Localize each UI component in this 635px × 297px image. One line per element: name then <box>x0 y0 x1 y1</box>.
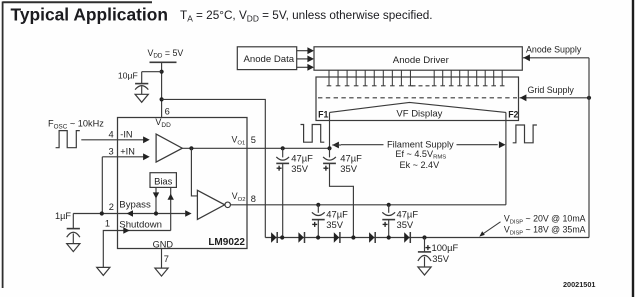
label Ek <box>400 160 441 170</box>
wire op-amp output to pin 5 and caps <box>182 147 329 149</box>
arrow to F2 wire <box>499 141 506 148</box>
junction VDD/10uF <box>160 70 164 74</box>
svg-text:Anode Driver: Anode Driver <box>393 55 450 66</box>
block Bias box <box>150 173 176 188</box>
junction VO1/F1/C4 <box>327 146 331 150</box>
svg-text:F1: F1 <box>318 109 328 119</box>
label LM9022 <box>208 237 245 248</box>
label Filament Supply <box>387 139 454 149</box>
wire anode supply <box>523 57 589 59</box>
svg-text:TA = 25°C, VDD = 5V, unless ot: TA = 25°C, VDD = 5V, unless otherwise sp… <box>180 9 433 23</box>
block VF Display box <box>316 77 519 121</box>
diode D4 <box>369 232 375 243</box>
junction grid supply on bus <box>587 96 591 100</box>
bus arrow 1 anode data <box>297 47 314 54</box>
wire +IN to bypass node <box>101 157 103 214</box>
label VO1 <box>232 135 246 147</box>
pin 1 label <box>105 218 110 228</box>
junction pump node 3 <box>351 235 355 239</box>
label FOSC ~ 10kHz <box>48 118 104 130</box>
wire charge pump rail <box>265 237 589 239</box>
arrow into -IN <box>143 136 150 143</box>
arrow on bypass line toward pin 2 <box>127 210 133 217</box>
IC U1 LM9022 outline <box>118 118 248 249</box>
wire shutdown internal <box>118 230 171 232</box>
wire inverter output VO2 line <box>231 204 506 206</box>
svg-text:47µF: 47µF <box>397 208 419 219</box>
svg-text:7: 7 <box>164 254 169 264</box>
label Anode Driver <box>393 55 450 66</box>
svg-text:35V: 35V <box>291 163 308 174</box>
junction VO2/C6 <box>387 203 391 207</box>
label Anode Supply <box>526 44 582 54</box>
svg-text:10µF: 10µF <box>118 71 138 81</box>
svg-text:47µF: 47µF <box>326 208 348 219</box>
label F1 <box>318 109 328 119</box>
leader arrow to output line <box>479 222 500 237</box>
wire bypass line <box>73 213 185 215</box>
arrow on shutdown line <box>123 227 129 234</box>
svg-text:8: 8 <box>251 194 256 204</box>
op-amp A1 <box>156 134 182 162</box>
arrow into +IN <box>143 153 150 160</box>
arrow into anode driver <box>523 54 530 61</box>
svg-text:2: 2 <box>109 202 114 212</box>
label Grid Supply <box>528 85 575 95</box>
label VF Display <box>396 109 442 120</box>
svg-text:1: 1 <box>105 218 110 228</box>
svg-text:F2: F2 <box>508 109 518 119</box>
label -IN <box>120 130 132 140</box>
svg-text:47µF: 47µF <box>340 152 362 163</box>
svg-text:47µF: 47µF <box>291 152 313 163</box>
svg-text:+IN: +IN <box>120 146 135 156</box>
subtitle: conditions <box>180 9 433 23</box>
label F2 <box>508 109 518 119</box>
svg-text:VF Display: VF Display <box>396 109 442 120</box>
leader line left of filament supply text <box>341 144 384 146</box>
junction pump node 2 <box>316 235 320 239</box>
inverter A2 <box>197 190 230 219</box>
wire shutdown external to ground <box>103 231 117 268</box>
label VDISP 20V <box>504 214 586 226</box>
junction bypass/+IN/1uF <box>100 211 104 215</box>
border frame <box>3 1 152 3</box>
capacitor C4 47uF <box>323 148 353 237</box>
pin 7 label <box>164 254 169 264</box>
diode D1 <box>271 232 277 243</box>
label GND pin name <box>153 240 174 250</box>
svg-text:Anode Data: Anode Data <box>243 54 294 65</box>
wire Bias to bypass node with down arrow <box>153 187 159 213</box>
wire 10uF branch <box>142 71 162 73</box>
svg-text:Anode Supply: Anode Supply <box>526 44 582 54</box>
label VO2 <box>232 191 246 203</box>
svg-text:Bias: Bias <box>154 175 173 186</box>
junction bypass/bias <box>154 211 158 215</box>
wire supply bus vertical <box>588 58 590 238</box>
wire grid supply <box>520 97 590 99</box>
bus arrow 2 anode data <box>297 56 314 63</box>
capacitor C2 1uF <box>67 214 80 244</box>
pin 5 label <box>251 135 256 145</box>
capacitor C3 47uF <box>276 146 289 237</box>
svg-text:Ek ~ 2.4V: Ek ~ 2.4V <box>400 160 441 170</box>
grid dashed line <box>318 97 517 99</box>
capacitor C6 47uF <box>382 205 395 238</box>
capacitor C5 47uF <box>312 205 325 238</box>
pin 6 label <box>165 106 170 116</box>
ground for shutdown <box>97 267 110 275</box>
arrow into grid <box>520 94 527 101</box>
value label C3 <box>291 152 313 174</box>
label Bypass <box>119 200 151 211</box>
label Shutdown <box>119 220 162 231</box>
svg-text:3: 3 <box>109 146 114 156</box>
svg-text:LM9022: LM9022 <box>208 237 245 248</box>
value label 10uF <box>118 71 138 81</box>
ellipsis dashes between fingers <box>412 85 434 87</box>
capacitor C1 10uF <box>135 72 148 95</box>
wire shutdown to Bias with up arrow <box>168 187 174 230</box>
pin 2 label <box>109 202 114 212</box>
value label C5 <box>326 208 348 230</box>
junction pump node 1 <box>280 235 284 239</box>
wire F2 to VO2 line <box>505 112 507 204</box>
wire VDD to diode chain <box>162 99 266 237</box>
block Anode Driver box <box>314 47 522 70</box>
svg-text:35V: 35V <box>432 253 449 264</box>
label Ef <box>395 149 446 161</box>
value label C6 <box>397 208 419 230</box>
svg-text:Typical Application: Typical Application <box>11 5 169 25</box>
node VDD = 5V label <box>148 48 184 60</box>
ground for pin 7 <box>155 268 168 276</box>
anode driver output fingers <box>327 70 505 86</box>
label VDD pin name <box>155 117 171 129</box>
arrow to F1 node <box>332 142 341 149</box>
label Anode Data <box>243 54 294 65</box>
arrow on bypass line into inverter <box>185 210 191 217</box>
pin 3 label <box>109 146 114 156</box>
svg-text:Grid Supply: Grid Supply <box>528 85 575 95</box>
wire feedback VO1 to inverter <box>191 148 197 196</box>
ground for 1uF <box>67 244 80 252</box>
VDD supply rail bar <box>150 61 177 63</box>
bus arrow 3 anode data <box>297 64 314 71</box>
junction VO2/C5 <box>316 203 320 207</box>
svg-text:5: 5 <box>251 135 256 145</box>
diode D5 <box>404 232 410 243</box>
svg-text:Bypass: Bypass <box>119 200 151 211</box>
label VDISP 18V <box>504 225 586 237</box>
value label 1uF <box>55 211 71 221</box>
value label 100uF <box>432 242 459 264</box>
document number 20021501 <box>563 280 595 289</box>
ground for 100uF <box>418 267 431 275</box>
svg-text:4: 4 <box>109 130 114 140</box>
svg-text:35V: 35V <box>340 163 357 174</box>
wire -IN input <box>81 139 143 141</box>
pin 4 label <box>109 130 114 140</box>
leader line right of filament supply text <box>457 144 498 146</box>
block Anode Data box <box>237 47 296 70</box>
svg-text:GND: GND <box>153 240 174 250</box>
wire GND pin 7 <box>161 249 163 269</box>
svg-text:35V: 35V <box>397 219 414 230</box>
filament wire tent <box>330 102 506 112</box>
capacitor C7 100uF <box>418 238 431 268</box>
title: Typical Application <box>11 5 169 25</box>
svg-text:1µF: 1µF <box>55 211 71 221</box>
diode D3 <box>334 232 340 243</box>
ground for 10uF <box>135 94 148 102</box>
svg-text:20021501: 20021501 <box>563 280 595 289</box>
waveform square wave at FOSC input <box>56 131 80 148</box>
wire F1 to VO1 node <box>329 112 331 148</box>
svg-text:6: 6 <box>165 106 170 116</box>
waveform square wave at F1 <box>301 125 325 143</box>
pin 8 label <box>251 194 256 204</box>
svg-text:35V: 35V <box>326 219 343 230</box>
junction output node <box>422 235 426 239</box>
diode D2 <box>298 232 304 243</box>
svg-text:-IN: -IN <box>120 130 132 140</box>
junction op-amp output <box>189 146 193 150</box>
waveform square wave at F2 <box>513 125 537 143</box>
svg-text:100µF: 100µF <box>432 242 459 253</box>
value label C4 <box>340 152 362 174</box>
junction pump node 4 <box>387 235 391 239</box>
label +IN <box>120 146 135 156</box>
label Bias <box>154 175 173 186</box>
junction VDD/charge-pump feed <box>160 97 164 101</box>
wire +IN input <box>102 156 143 158</box>
wire VDD rail to pin 6 <box>161 62 163 117</box>
